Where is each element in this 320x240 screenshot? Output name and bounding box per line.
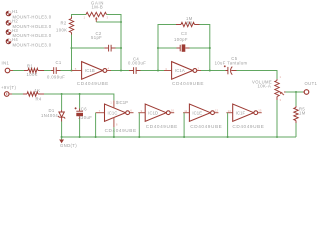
node junction output feedback — [120, 69, 122, 71]
svg-text:100pF: 100pF — [174, 37, 188, 42]
wire volume wiper to output node — [286, 91, 304, 93]
wire output node down to R5 — [295, 92, 297, 106]
resistor R1 100K — [24, 64, 44, 78]
svg-text:1K: 1K — [35, 88, 41, 93]
svg-text:10K-A: 10K-A — [258, 84, 272, 89]
inverter IC1A CD4049UBE — [164, 62, 204, 86]
capacitor C3 100pF — [174, 31, 190, 52]
svg-text:IC1E: IC1E — [192, 110, 202, 115]
wire IC1C input to ground rail — [95, 113, 97, 137]
ground symbol GND(T) — [59, 137, 77, 148]
node junction IC1D input drop — [138, 136, 140, 138]
inverter IC1B CD4049UBE — [72, 62, 112, 86]
node junction at input of IC1B — [70, 69, 72, 71]
svg-text:CD4049UBE: CD4049UBE — [172, 81, 204, 86]
wire R3 right to loop2 right vertical — [200, 25, 210, 71]
wire C5 to volume pot — [237, 71, 278, 80]
svg-text:R4: R4 — [36, 96, 42, 101]
node junction C6 on ground rail — [79, 136, 81, 138]
svg-text:H4: H4 — [12, 37, 18, 42]
svg-text:IC1A: IC1A — [175, 68, 185, 73]
svg-text:MOUNT-HOLE3.0: MOUNT-HOLE3.0 — [13, 15, 52, 20]
capacitor C2 51pF — [91, 31, 116, 52]
svg-text:H3: H3 — [12, 28, 18, 33]
svg-text:H1: H1 — [12, 9, 18, 14]
svg-text:10: 10 — [171, 109, 175, 113]
wire R2 top to gain pot left — [72, 15, 87, 17]
mount hole H1 — [6, 9, 52, 19]
svg-text:IC1C: IC1C — [108, 110, 118, 115]
svg-text:CD4049UBE: CD4049UBE — [190, 124, 222, 129]
wire IC1A output to C5 — [201, 70, 226, 72]
node junction C6 on rail — [79, 93, 81, 95]
wire C2 row — [72, 47, 105, 49]
svg-text:100K: 100K — [56, 27, 67, 32]
wire C3 row left — [158, 47, 177, 49]
svg-text:CD4049UBE: CD4049UBE — [105, 128, 137, 133]
resistor R3 1M — [176, 16, 200, 27]
svg-text:IC1F: IC1F — [236, 110, 246, 115]
svg-text:15: 15 — [258, 109, 262, 113]
wire gain wiper to feedback vertical — [96, 21, 121, 23]
node junction C2 right — [120, 47, 122, 49]
svg-text:1M-B: 1M-B — [92, 5, 104, 10]
svg-text:CD4049UBE: CD4049UBE — [146, 124, 178, 129]
wire node up to R2 — [71, 48, 73, 71]
wire +9V to R4 — [12, 93, 23, 95]
svg-text:1N4004: 1N4004 — [41, 113, 58, 118]
svg-text:100K: 100K — [27, 72, 38, 77]
wire R1 to C1 — [44, 70, 51, 72]
svg-text:C1: C1 — [56, 60, 62, 65]
svg-text:R3: R3 — [187, 20, 193, 25]
capacitor C5 10uF Tantalum — [215, 56, 248, 74]
mount hole H4 — [6, 37, 52, 47]
node junction IC1F input drop — [227, 136, 229, 138]
svg-text:IC1B: IC1B — [85, 68, 95, 73]
wire IC1D input to ground rail — [138, 113, 140, 137]
wire C2 right to vertical — [116, 47, 122, 49]
node junction IC1A output feedback — [209, 69, 211, 71]
resistor R2 100K — [56, 17, 74, 35]
svg-text:R2: R2 — [61, 21, 67, 26]
inverter IC1C CD4049UBE with power pins — [96, 100, 137, 133]
capacitor C6 330uF — [75, 94, 93, 137]
svg-text:1M: 1M — [299, 111, 306, 116]
wire loop2 left vertical — [158, 25, 176, 71]
svg-text:C3: C3 — [181, 31, 187, 36]
svg-text:GND(T): GND(T) — [60, 143, 77, 148]
node junction wiper on vertical — [120, 21, 122, 23]
mount hole H3 — [6, 28, 52, 38]
ground rail wire — [62, 136, 296, 138]
svg-text:CD4049UBE: CD4049UBE — [232, 124, 264, 129]
capacitor C1 0.099uF — [47, 60, 65, 79]
node junction C3 right — [209, 47, 211, 49]
wire R2 bottom — [71, 35, 73, 49]
node junction IC1C input drop — [95, 136, 97, 138]
svg-text:$IC1P: $IC1P — [116, 100, 128, 105]
wire IC1E input to ground rail — [183, 113, 185, 137]
svg-text:330uF: 330uF — [78, 115, 92, 120]
node junction D1 on ground rail — [61, 136, 63, 138]
pad +9V(T) — [1, 85, 17, 96]
pad IN1 — [2, 61, 14, 73]
wire IC1B output — [111, 70, 129, 72]
node junction C2 row left — [70, 47, 72, 49]
svg-text:CD4049UBE: CD4049UBE — [77, 81, 109, 86]
inverter IC1E CD4049UBE — [183, 104, 222, 129]
capacitor C4 0.003uF — [128, 56, 146, 74]
wire volume pot bottom to ground rail — [276, 100, 278, 137]
wire IC1F input to ground rail — [227, 113, 229, 137]
wire +9V rail to VDD drop — [44, 94, 114, 100]
svg-text:12: 12 — [215, 109, 219, 113]
svg-text:10uF Tantalum: 10uF Tantalum — [215, 61, 248, 66]
svg-text:11: 11 — [184, 109, 187, 113]
svg-text:14: 14 — [228, 109, 232, 113]
node junction IC1E input drop — [183, 136, 185, 138]
svg-text:OUT1: OUT1 — [305, 81, 318, 86]
pad OUT1 — [303, 81, 318, 94]
potentiometer VOLUME 10K-A — [252, 75, 286, 102]
svg-text:MOUNT-HOLE3.0: MOUNT-HOLE3.0 — [13, 33, 52, 38]
wire R5 bottom to ground rail — [295, 123, 297, 137]
svg-text:0.003uF: 0.003uF — [128, 60, 146, 65]
potentiometer GAIN 1M-B — [84, 0, 109, 22]
svg-text:R1: R1 — [27, 64, 33, 69]
node junction pot bottom on rail — [276, 136, 278, 138]
svg-text:51pF: 51pF — [91, 35, 102, 40]
wire C3 right — [190, 47, 210, 49]
wire C4 to IC1A input node — [141, 70, 165, 72]
diode D1 1N4004 — [41, 94, 65, 137]
wire C1 to IC1B input node — [61, 70, 72, 72]
mount hole H2 — [6, 19, 52, 29]
svg-text:MOUNT-HOLE3.0: MOUNT-HOLE3.0 — [13, 24, 52, 29]
resistor R4 1K — [23, 88, 44, 101]
node junction C3 left — [157, 47, 159, 49]
node junction D1 on rail — [61, 93, 63, 95]
node junction output — [295, 91, 297, 93]
wire gain pot right down to output node — [107, 15, 122, 71]
svg-text:+9V(T): +9V(T) — [1, 85, 17, 90]
svg-text:C6: C6 — [81, 107, 87, 112]
wire VSS to ground rail — [113, 127, 115, 137]
svg-text:0.099uF: 0.099uF — [47, 75, 65, 80]
node junction IC1A input — [157, 69, 159, 71]
inverter IC1F CD4049UBE — [226, 104, 264, 129]
resistor R5 1M — [294, 106, 306, 123]
svg-text:IN1: IN1 — [2, 61, 10, 66]
node junction VSS on rail — [113, 136, 115, 138]
wire IN1 to R1 — [13, 70, 24, 72]
inverter IC1D CD4049UBE — [138, 104, 178, 129]
svg-text:IC1D: IC1D — [148, 110, 158, 115]
svg-text:H2: H2 — [12, 19, 18, 24]
svg-text:MOUNT-HOLE3.0: MOUNT-HOLE3.0 — [13, 43, 52, 48]
